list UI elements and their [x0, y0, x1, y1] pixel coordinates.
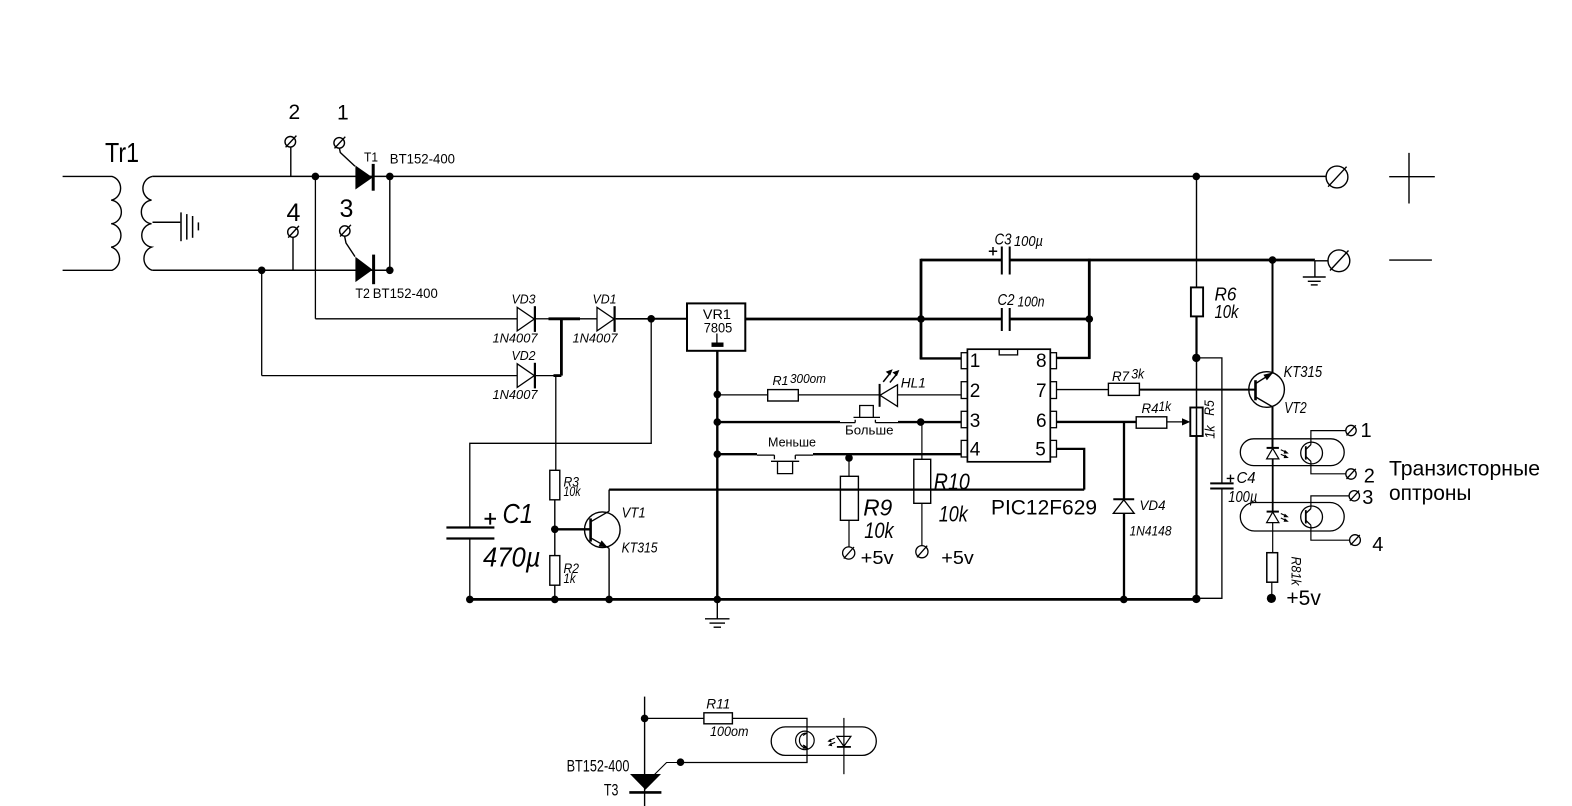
- wire pin7 to R7: [1057, 389, 1109, 391]
- node rail R5: [1192, 595, 1200, 603]
- svg-text:VD4: VD4: [1140, 498, 1166, 513]
- svg-text:7: 7: [1036, 381, 1047, 402]
- wire HL1 to pin2: [898, 394, 962, 396]
- dash mark right: [1389, 259, 1432, 261]
- wire opto2 emitter to terminal 4: [1311, 525, 1349, 540]
- node pin4 / R9 branch: [845, 454, 853, 462]
- optocoupler U2 phototransistor: [1301, 442, 1323, 464]
- transformer center-tap ground: [153, 212, 199, 241]
- optocoupler U2 body: [1240, 439, 1344, 466]
- node top rail R6: [1193, 173, 1201, 181]
- svg-text:4: 4: [970, 440, 981, 461]
- optocoupler U4 LED arrows: [827, 738, 835, 746]
- ground symbol main: [705, 599, 730, 627]
- wire R10 to +5v terminal: [921, 503, 923, 545]
- wire node to R5: [1196, 358, 1198, 408]
- node rail VD4: [1120, 596, 1128, 604]
- optocoupler U2 LED arrows: [1281, 450, 1289, 458]
- IC U1 pin stubs right: [1050, 353, 1056, 457]
- wire LED2 to R8: [1272, 523, 1274, 553]
- node rail R2: [551, 596, 559, 604]
- triac T1: [355, 166, 372, 190]
- node C3 rail / VT2 emitter riser: [1269, 256, 1277, 264]
- wire VD3 cathode junction (thick elbow): [549, 319, 581, 376]
- optocoupler U3 LED arrows: [1281, 514, 1289, 522]
- terminal at C3 rail: [1328, 250, 1350, 272]
- svg-text:470µ: 470µ: [483, 541, 541, 572]
- wire R8 to +5v dot: [1271, 582, 1273, 594]
- wire VT1 collector riser: [608, 490, 610, 512]
- svg-text:R11: R11: [706, 696, 730, 711]
- svg-text:VD2: VD2: [512, 348, 537, 363]
- svg-text:2: 2: [970, 381, 981, 402]
- wire VT1 collector to pin5: [609, 488, 1084, 490]
- transistor VT1: [585, 511, 621, 548]
- wire opto1 emitter to terminal 2: [1311, 461, 1346, 474]
- terminal opto 1: [1346, 425, 1356, 435]
- svg-text:100µ: 100µ: [1228, 489, 1257, 506]
- node T3 gate wire: [677, 758, 685, 766]
- ground at C3 rail end: [1303, 261, 1326, 285]
- triac T3: [630, 774, 661, 790]
- wire pin4 row left: [717, 453, 757, 455]
- svg-text:HL1: HL1: [901, 376, 926, 391]
- terminal opto 4: [1350, 535, 1361, 546]
- svg-text:+5v: +5v: [1286, 587, 1321, 610]
- svg-text:3k: 3k: [1131, 367, 1145, 382]
- svg-text:100µ: 100µ: [1014, 233, 1043, 250]
- svg-text:VD1: VD1: [593, 291, 617, 306]
- wire pin6 row: [1057, 421, 1137, 423]
- svg-text:оптроны: оптроны: [1389, 481, 1472, 505]
- wire VD1 to node: [616, 318, 652, 320]
- svg-text:R1: R1: [773, 374, 789, 388]
- wire node to VR1: [651, 318, 687, 320]
- terminal opto 2: [1346, 469, 1356, 479]
- capacitor C1: [446, 528, 494, 539]
- op IC U1 box: [967, 349, 1050, 462]
- wire VT1 emitter to rail: [608, 548, 610, 599]
- node VD1 output: [647, 315, 655, 323]
- node rail VT1: [605, 596, 613, 604]
- wire R9 drop: [848, 454, 850, 476]
- svg-text:1N4148: 1N4148: [1130, 524, 1172, 539]
- capacitor C4: [1210, 483, 1233, 488]
- svg-text:Меньше: Меньше: [768, 436, 816, 450]
- node R11 tap: [641, 715, 649, 723]
- svg-text:4: 4: [287, 199, 301, 227]
- wire pin3 row left: [717, 421, 840, 423]
- resistor R1: [768, 390, 799, 401]
- resistor R3: [550, 470, 560, 500]
- wire C3 top rail: [921, 259, 1315, 262]
- IC U1 pin stubs left: [961, 353, 967, 457]
- svg-text:Больше: Больше: [845, 423, 894, 437]
- capacitor C4 polarity plus: [1227, 475, 1235, 483]
- node T1 cathode: [386, 173, 394, 181]
- wire node2 to VD3: [315, 176, 517, 318]
- wire pin4 row right: [813, 453, 961, 455]
- wire ground rail: [470, 598, 1197, 601]
- node top rail / terminal2 branch: [312, 173, 320, 181]
- svg-text:R81k: R81k: [1289, 557, 1305, 587]
- button Menshe: [757, 455, 813, 474]
- resistor R7: [1108, 383, 1139, 395]
- resistor R4: [1136, 417, 1167, 428]
- svg-text:BT152-400: BT152-400: [373, 285, 438, 301]
- node +5v R8: [1267, 594, 1276, 603]
- wire pin3 row right: [898, 421, 961, 423]
- LED HL1 emission arrows: [883, 369, 899, 382]
- svg-text:2: 2: [1364, 465, 1375, 487]
- wire node4 to VD2: [262, 270, 518, 375]
- optocoupler U2 LED: [1267, 448, 1279, 459]
- wire LED chain between optos: [1272, 459, 1274, 512]
- node T2 cathode: [386, 267, 394, 275]
- svg-text:1k: 1k: [1159, 399, 1173, 414]
- triac T2: [355, 257, 372, 282]
- svg-text:300om: 300om: [790, 372, 826, 386]
- node bottom rail / VD2 branch: [258, 267, 266, 275]
- svg-text:1: 1: [970, 351, 981, 372]
- diode VD3: [517, 306, 535, 332]
- svg-text:C2: C2: [998, 292, 1015, 309]
- node pin2 branch: [714, 391, 722, 399]
- wire R10 drop: [921, 422, 923, 459]
- optocoupler U4 LED wire: [843, 718, 845, 774]
- wire top rail: [152, 175, 1326, 177]
- svg-text:10k: 10k: [564, 484, 582, 499]
- svg-text:R9: R9: [863, 495, 892, 521]
- svg-text:+5v: +5v: [861, 547, 895, 568]
- wire opto1 collector to terminal 1: [1311, 431, 1346, 445]
- svg-text:100om: 100om: [710, 724, 749, 739]
- terminal at top rail: [1326, 166, 1348, 188]
- svg-text:C1: C1: [503, 498, 534, 529]
- wire R5 inner: [1196, 408, 1198, 437]
- wire C3 rail end to terminal: [1315, 260, 1328, 262]
- wire R1 to HL1: [798, 394, 879, 396]
- wire VD4 drop: [1123, 422, 1125, 499]
- svg-text:VT2: VT2: [1284, 400, 1307, 417]
- svg-text:3: 3: [970, 411, 981, 432]
- svg-text:R7: R7: [1112, 369, 1129, 384]
- capacitor C2: [1002, 308, 1010, 331]
- wire R6 to node: [1195, 316, 1197, 358]
- node VT1 base: [551, 526, 559, 534]
- svg-text:10k: 10k: [864, 518, 894, 543]
- optocoupler U4 LED: [837, 736, 851, 747]
- svg-text:BT152-400: BT152-400: [567, 756, 630, 775]
- wire C4 branch: [1196, 358, 1222, 598]
- wire R7 to VT2 base: [1139, 389, 1255, 391]
- capacitor C1 top wire: [469, 527, 471, 599]
- IC U1 notch: [999, 349, 1017, 355]
- wire R5 to rail: [1195, 436, 1197, 599]
- resistor R2: [550, 556, 560, 586]
- svg-text:10k: 10k: [939, 502, 969, 527]
- wire R2 to ground rail: [554, 585, 556, 599]
- diode VD4: [1113, 499, 1134, 513]
- wire VT1 base: [555, 528, 591, 530]
- diode VD1: [597, 306, 615, 332]
- transformer Tr1 secondary winding: [141, 176, 152, 270]
- wire VD4 to rail: [1123, 513, 1125, 599]
- terminal +5v R10: [916, 546, 928, 558]
- optocoupler U3 LED: [1267, 512, 1279, 523]
- resistor R6: [1191, 287, 1203, 316]
- optocoupler U4 body: [771, 727, 876, 756]
- wire pin5 elbow: [1057, 449, 1085, 490]
- svg-text:1N4007: 1N4007: [573, 332, 619, 346]
- wire pin2 row left: [717, 394, 767, 396]
- resistor R10: [914, 459, 931, 503]
- terminal 4: [288, 226, 299, 270]
- cross mark top right: [1389, 153, 1435, 204]
- svg-text:10k: 10k: [1215, 301, 1240, 322]
- wire T1-T2 cathode tie: [389, 176, 391, 270]
- transistor VT2: [1249, 372, 1285, 408]
- transformer Tr1 primary winding: [63, 176, 122, 270]
- wire VD2 to elbow: [536, 375, 554, 377]
- potentiometer R5: [1190, 408, 1202, 437]
- svg-text:BT152-400: BT152-400: [390, 151, 455, 167]
- terminal 2: [285, 136, 296, 177]
- regulator VR1 box: [687, 303, 745, 350]
- svg-text:T3: T3: [604, 781, 619, 800]
- terminal 3: [340, 225, 355, 257]
- svg-text:1N4007: 1N4007: [493, 332, 539, 346]
- LED HL1: [880, 384, 898, 407]
- optocoupler U3 phototransistor: [1301, 506, 1323, 528]
- svg-text:4: 4: [1372, 534, 1383, 556]
- node rail C1: [466, 596, 474, 604]
- wire VR1 output (+5v row): [745, 318, 1089, 321]
- wire opto2 collector to terminal 3: [1311, 496, 1349, 509]
- svg-text:KT315: KT315: [1284, 364, 1323, 381]
- svg-text:1: 1: [337, 102, 349, 125]
- resistor R8: [1267, 553, 1278, 583]
- wire pin8: [1057, 357, 1091, 359]
- svg-text:3: 3: [1362, 487, 1373, 509]
- terminal +5v R9: [843, 547, 855, 559]
- svg-text:8: 8: [1036, 351, 1047, 372]
- optocoupler U4 phototransistor arrow: [803, 745, 809, 749]
- wire R11 to opto3 elbow: [681, 718, 808, 762]
- svg-text:KT315: KT315: [622, 540, 659, 557]
- svg-text:Tr1: Tr1: [105, 137, 139, 168]
- wire R6 riser from top rail: [1196, 176, 1198, 287]
- wire elbow to VD1: [580, 318, 597, 320]
- wire R9 to +5v terminal: [848, 520, 850, 547]
- svg-text:3: 3: [340, 195, 354, 223]
- svg-text:1: 1: [1361, 420, 1372, 442]
- node rail VR1 gnd: [714, 596, 722, 604]
- resistor R11: [704, 713, 733, 724]
- svg-text:R5: R5: [1201, 400, 1217, 416]
- regulator VR1 gnd pin symbol: [716, 334, 718, 343]
- svg-text:1k: 1k: [1201, 424, 1217, 438]
- wire C3 left riser: [920, 259, 923, 359]
- wire VD3 to elbow: [536, 318, 549, 320]
- svg-text:100n: 100n: [1018, 293, 1045, 310]
- node pin3 / R10 branch: [917, 418, 925, 426]
- wire T3 anode vertical: [644, 697, 646, 806]
- svg-text:7805: 7805: [704, 320, 733, 335]
- node pin3 branch: [714, 418, 722, 426]
- transistor VT1 emitter arrow: [599, 540, 608, 547]
- wire R11 row: [645, 717, 704, 719]
- terminal opto 3: [1349, 491, 1359, 501]
- wire R4 to R5 wiper arrow: [1167, 421, 1183, 423]
- optocoupler U4 phototransistor: [796, 731, 815, 750]
- svg-text:T1: T1: [364, 149, 378, 164]
- terminal 1: [334, 137, 355, 167]
- wire VR1 gnd drop: [716, 351, 718, 600]
- diode VD2: [517, 363, 535, 389]
- svg-text:VD3: VD3: [512, 291, 537, 306]
- svg-text:PIC12F629: PIC12F629: [991, 495, 1097, 519]
- wire VT2 collector drop: [1272, 407, 1274, 448]
- capacitor C3: [1002, 247, 1010, 275]
- node pin4 branch: [714, 450, 722, 458]
- wire gate to T3: [655, 763, 681, 775]
- wire VT2 emitter riser to C3 rail: [1272, 260, 1274, 373]
- svg-text:+5v: +5v: [941, 547, 974, 568]
- wire VD2 junction to R3: [555, 376, 557, 471]
- svg-text:R4: R4: [1142, 401, 1159, 416]
- svg-text:Транзисторные: Транзисторные: [1389, 456, 1540, 480]
- svg-text:2: 2: [289, 101, 301, 124]
- svg-text:C4: C4: [1237, 470, 1256, 487]
- wire pin8 riser: [1088, 259, 1091, 359]
- svg-text:VT1: VT1: [622, 504, 646, 521]
- node +5v row / pin8 riser: [1086, 315, 1094, 323]
- optocoupler U3 body: [1240, 503, 1344, 532]
- resistor R9: [840, 476, 858, 520]
- capacitor C3 polarity plus: [989, 247, 997, 255]
- svg-text:1k: 1k: [564, 571, 577, 586]
- wire pin1: [920, 357, 961, 359]
- node +5v row / C3 riser: [917, 315, 925, 323]
- svg-text:5: 5: [1035, 440, 1046, 461]
- button Bolshe: [840, 406, 898, 423]
- wire R3 to R2: [554, 500, 556, 556]
- svg-text:C3: C3: [995, 231, 1012, 248]
- capacitor C1 polarity plus: [485, 513, 497, 525]
- transistor VT2 emitter arrow: [1263, 372, 1273, 380]
- svg-text:T2: T2: [355, 285, 370, 301]
- svg-text:1N4007: 1N4007: [493, 388, 539, 402]
- wire bottom secondary rail: [152, 269, 389, 271]
- node R6 R5 C4: [1192, 354, 1200, 362]
- wire node to C1: [470, 319, 651, 527]
- svg-text:6: 6: [1036, 411, 1047, 432]
